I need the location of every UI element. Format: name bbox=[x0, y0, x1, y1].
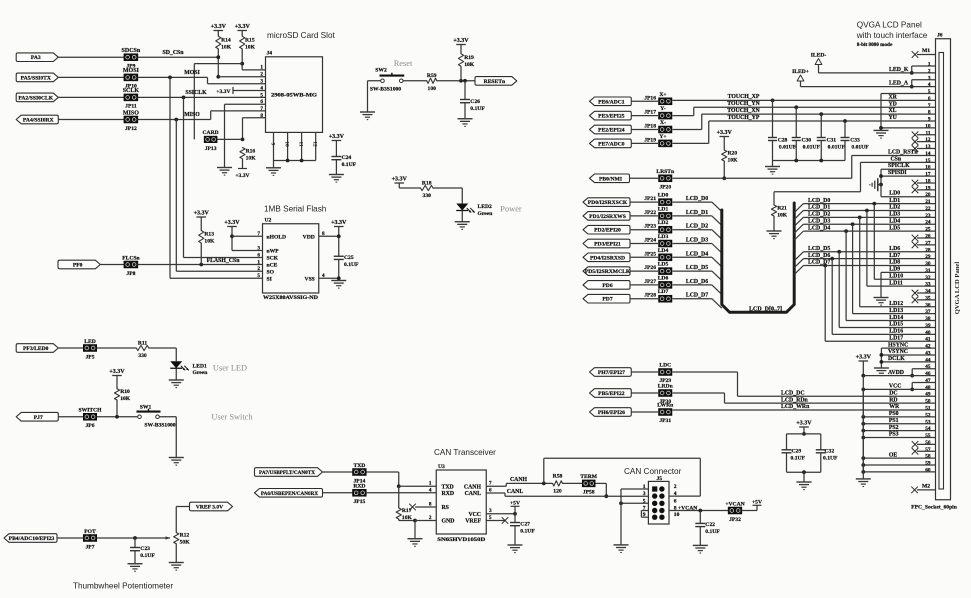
svg-text:LCD_RDn: LCD_RDn bbox=[781, 397, 809, 403]
svg-text:JP18: JP18 bbox=[644, 124, 656, 130]
svg-text:WR: WR bbox=[889, 404, 900, 410]
svg-text:TERM: TERM bbox=[580, 474, 598, 480]
svg-text:PH6/EPI26: PH6/EPI26 bbox=[598, 410, 625, 416]
svg-text:TOUCH_YN: TOUCH_YN bbox=[727, 101, 760, 107]
svg-text:LCD_D0: LCD_D0 bbox=[808, 198, 830, 204]
svg-text:PF0: PF0 bbox=[73, 263, 83, 269]
svg-text:C23: C23 bbox=[140, 546, 150, 552]
svg-text:DC: DC bbox=[889, 390, 897, 396]
svg-text:LRSTn: LRSTn bbox=[656, 169, 675, 175]
svg-text:PA4/SSI0RX: PA4/SSI0RX bbox=[23, 118, 54, 124]
svg-text:CANL: CANL bbox=[507, 489, 524, 495]
svg-text:TOUCH_XN: TOUCH_XN bbox=[727, 108, 760, 114]
svg-text:Power: Power bbox=[500, 205, 522, 214]
svg-text:JP11: JP11 bbox=[125, 104, 137, 110]
svg-text:4: 4 bbox=[260, 85, 263, 91]
svg-text:2: 2 bbox=[674, 484, 677, 490]
svg-text:LED: LED bbox=[84, 339, 96, 345]
svg-text:TOUCH_YP: TOUCH_YP bbox=[728, 115, 760, 121]
svg-text:LCD_D7: LCD_D7 bbox=[808, 260, 830, 266]
svg-text:C24: C24 bbox=[342, 155, 352, 161]
svg-text:50K: 50K bbox=[180, 540, 191, 546]
svg-text:SCLK: SCLK bbox=[123, 88, 140, 94]
svg-text:7: 7 bbox=[489, 481, 492, 487]
svg-text:6: 6 bbox=[260, 99, 263, 105]
svg-text:2: 2 bbox=[260, 72, 263, 78]
svg-text:Green: Green bbox=[193, 370, 209, 376]
svg-text:PE6/ADC1: PE6/ADC1 bbox=[598, 99, 625, 105]
svg-text:9: 9 bbox=[270, 143, 276, 146]
svg-text:R19: R19 bbox=[464, 55, 474, 61]
svg-text:LD3: LD3 bbox=[889, 212, 900, 218]
svg-text:LCD_D7: LCD_D7 bbox=[686, 293, 708, 299]
svg-text:J4: J4 bbox=[267, 51, 273, 57]
svg-text:LD3: LD3 bbox=[658, 234, 669, 240]
svg-text:LD16: LD16 bbox=[889, 329, 903, 335]
svg-text:8: 8 bbox=[260, 113, 263, 119]
svg-text:330: 330 bbox=[138, 353, 147, 359]
svg-text:U2: U2 bbox=[265, 218, 272, 224]
svg-text:LRDn: LRDn bbox=[658, 384, 674, 390]
svg-text:PA3: PA3 bbox=[31, 55, 41, 61]
svg-text:LDC: LDC bbox=[659, 363, 671, 369]
svg-text:MISO: MISO bbox=[184, 112, 200, 118]
svg-text:VREF 3.0V: VREF 3.0V bbox=[196, 505, 223, 511]
svg-text:10K: 10K bbox=[464, 62, 475, 68]
svg-text:PD4/I2SRXSD: PD4/I2SRXSD bbox=[590, 255, 625, 261]
svg-text:RESETn: RESETn bbox=[484, 79, 506, 85]
svg-text:LCD_D0: LCD_D0 bbox=[686, 196, 708, 202]
svg-text:LCD_D3: LCD_D3 bbox=[808, 218, 830, 224]
svg-text:3: 3 bbox=[489, 508, 492, 514]
svg-text:LED_K: LED_K bbox=[889, 67, 909, 73]
svg-text:PE3/EPI25: PE3/EPI25 bbox=[598, 114, 625, 120]
svg-text:10K: 10K bbox=[245, 45, 256, 51]
svg-text:microSD Card Slot: microSD Card Slot bbox=[267, 31, 336, 40]
svg-text:R58: R58 bbox=[553, 474, 563, 480]
svg-text:+3.3V: +3.3V bbox=[109, 369, 125, 375]
svg-text:FLASH_CSn: FLASH_CSn bbox=[207, 258, 241, 264]
svg-text:+3.3V: +3.3V bbox=[392, 176, 408, 182]
svg-text:120: 120 bbox=[553, 488, 562, 494]
svg-text:0.01UF: 0.01UF bbox=[779, 144, 797, 150]
svg-text:LD12: LD12 bbox=[889, 301, 903, 307]
svg-text:10K: 10K bbox=[246, 155, 257, 161]
svg-text:0.1UF: 0.1UF bbox=[520, 528, 535, 534]
svg-text:JP19: JP19 bbox=[644, 137, 656, 143]
svg-text:1MB Serial Flash: 1MB Serial Flash bbox=[264, 205, 327, 214]
svg-text:0.1UF: 0.1UF bbox=[342, 162, 357, 168]
svg-text:PE2/EPI24: PE2/EPI24 bbox=[598, 128, 625, 134]
svg-text:LD9: LD9 bbox=[889, 267, 900, 273]
svg-text:JP5: JP5 bbox=[85, 354, 94, 360]
svg-text:W25X80AVSSIG-ND: W25X80AVSSIG-ND bbox=[263, 295, 318, 301]
svg-text:SWITCH: SWITCH bbox=[78, 408, 102, 414]
svg-text:PA7/USBPFLT/CAN0TX: PA7/USBPFLT/CAN0TX bbox=[259, 470, 315, 476]
svg-text:LD0: LD0 bbox=[889, 191, 900, 197]
svg-text:+3.3V: +3.3V bbox=[224, 220, 240, 226]
svg-text:PS2: PS2 bbox=[889, 425, 899, 431]
svg-text:JP6: JP6 bbox=[85, 423, 94, 429]
svg-text:PD5/I2SRXMCLK: PD5/I2SRXMCLK bbox=[585, 269, 631, 275]
svg-text:TXD: TXD bbox=[442, 484, 454, 490]
svg-text:R11: R11 bbox=[138, 341, 148, 347]
svg-text:SW-B3S1000: SW-B3S1000 bbox=[370, 87, 401, 93]
svg-text:DCLK: DCLK bbox=[888, 356, 905, 362]
svg-text:LCD_D2: LCD_D2 bbox=[686, 224, 708, 230]
svg-text:nWP: nWP bbox=[267, 249, 280, 255]
svg-text:LED_A: LED_A bbox=[889, 81, 909, 87]
svg-text:LCD_D6: LCD_D6 bbox=[808, 253, 830, 259]
svg-text:10: 10 bbox=[674, 512, 680, 518]
svg-text:0.1UF: 0.1UF bbox=[705, 529, 720, 535]
svg-text:10K: 10K bbox=[204, 239, 215, 245]
svg-text:LD7: LD7 bbox=[889, 253, 900, 259]
svg-text:JP24: JP24 bbox=[644, 238, 656, 244]
svg-text:LD14: LD14 bbox=[889, 315, 903, 321]
svg-text:10K: 10K bbox=[777, 213, 788, 219]
svg-text:7: 7 bbox=[260, 106, 263, 112]
svg-text:JP13: JP13 bbox=[205, 146, 217, 152]
svg-text:HSYNC: HSYNC bbox=[888, 342, 908, 348]
svg-text:LD7: LD7 bbox=[658, 289, 669, 295]
svg-text:+3.3V: +3.3V bbox=[216, 89, 230, 95]
svg-text:User LED: User LED bbox=[213, 364, 247, 373]
svg-text:JP28: JP28 bbox=[644, 293, 656, 299]
svg-text:LCD_D5: LCD_D5 bbox=[686, 265, 708, 271]
svg-text:C26: C26 bbox=[470, 99, 480, 105]
svg-text:3: 3 bbox=[643, 491, 646, 497]
svg-text:100: 100 bbox=[428, 86, 437, 92]
svg-text:J6: J6 bbox=[937, 33, 943, 39]
svg-text:MISO: MISO bbox=[123, 110, 139, 116]
svg-text:PD0/I2SRXSCK: PD0/I2SRXSCK bbox=[588, 200, 628, 206]
svg-text:SI: SI bbox=[267, 276, 272, 282]
svg-text:SPICLK: SPICLK bbox=[888, 163, 910, 169]
svg-text:PA6/USBEPEN/CAN0RX: PA6/USBEPEN/CAN0RX bbox=[261, 491, 319, 497]
svg-text:1: 1 bbox=[257, 259, 260, 265]
svg-text:RD: RD bbox=[889, 397, 897, 403]
svg-text:LCD_D[0..7]: LCD_D[0..7] bbox=[749, 307, 782, 313]
svg-text:ILED+: ILED+ bbox=[792, 69, 809, 75]
svg-text:JP12: JP12 bbox=[125, 126, 137, 132]
svg-text:+3.3V: +3.3V bbox=[453, 38, 469, 44]
svg-text:Green: Green bbox=[478, 211, 494, 217]
svg-text:5: 5 bbox=[260, 92, 263, 98]
svg-text:LED1: LED1 bbox=[193, 363, 208, 369]
svg-text:JP20: JP20 bbox=[659, 185, 671, 191]
svg-text:MOSI: MOSI bbox=[184, 70, 200, 76]
svg-text:SW2: SW2 bbox=[375, 68, 387, 74]
svg-text:PA2/SSI0CLK: PA2/SSI0CLK bbox=[18, 95, 53, 101]
svg-text:10K: 10K bbox=[728, 158, 739, 164]
svg-text:3: 3 bbox=[260, 79, 263, 85]
svg-text:+3.3V: +3.3V bbox=[235, 173, 249, 179]
svg-text:R12: R12 bbox=[180, 533, 190, 539]
svg-text:PB0/NMI: PB0/NMI bbox=[599, 176, 622, 182]
svg-text:MOSI: MOSI bbox=[123, 68, 140, 74]
svg-text:SPISDI: SPISDI bbox=[888, 170, 907, 176]
svg-text:JP27: JP27 bbox=[644, 279, 656, 285]
svg-text:LCD_D3: LCD_D3 bbox=[686, 238, 708, 244]
svg-text:330: 330 bbox=[423, 193, 432, 199]
svg-text:LD2: LD2 bbox=[889, 205, 900, 211]
svg-text:R21: R21 bbox=[777, 206, 787, 212]
svg-text:0.1UF: 0.1UF bbox=[470, 106, 485, 112]
svg-text:JP32: JP32 bbox=[729, 517, 741, 523]
svg-text:PD3/EPI21: PD3/EPI21 bbox=[594, 242, 621, 248]
svg-text:LD8: LD8 bbox=[889, 260, 900, 266]
svg-text:LD10: LD10 bbox=[889, 273, 903, 279]
svg-text:R14: R14 bbox=[221, 38, 231, 44]
svg-text:PJ7: PJ7 bbox=[34, 415, 43, 421]
svg-text:PB5/EPI22: PB5/EPI22 bbox=[598, 391, 625, 397]
svg-text:LCD_D5: LCD_D5 bbox=[808, 246, 830, 252]
svg-text:SW-B3S1000: SW-B3S1000 bbox=[144, 422, 175, 428]
svg-text:nHOLD: nHOLD bbox=[267, 234, 287, 240]
svg-text:ILED-: ILED- bbox=[811, 53, 827, 59]
svg-text:2908-05WB-MG: 2908-05WB-MG bbox=[271, 92, 317, 98]
svg-text:LD2: LD2 bbox=[658, 220, 669, 226]
svg-text:+3.3V: +3.3V bbox=[796, 420, 812, 426]
svg-text:User Switch: User Switch bbox=[211, 413, 253, 422]
svg-text:+3.3V: +3.3V bbox=[211, 24, 227, 30]
svg-text:LED2: LED2 bbox=[478, 204, 493, 210]
svg-text:QVGA LCD Panel: QVGA LCD Panel bbox=[954, 262, 961, 315]
svg-text:LD11: LD11 bbox=[889, 280, 903, 286]
svg-text:C33: C33 bbox=[850, 137, 860, 143]
svg-text:TXD: TXD bbox=[353, 463, 365, 469]
svg-text:11: 11 bbox=[298, 141, 304, 146]
svg-text:PB4/ADC10/EPI23: PB4/ADC10/EPI23 bbox=[9, 536, 55, 542]
svg-text:SO: SO bbox=[267, 269, 275, 275]
svg-text:YU: YU bbox=[889, 115, 898, 121]
svg-text:LD1: LD1 bbox=[658, 206, 669, 212]
svg-text:10: 10 bbox=[284, 141, 290, 147]
svg-text:R18: R18 bbox=[422, 181, 432, 187]
svg-text:JP8: JP8 bbox=[126, 271, 135, 277]
svg-text:VCC: VCC bbox=[468, 512, 481, 518]
svg-text:VREF: VREF bbox=[465, 519, 481, 525]
svg-text:LD6: LD6 bbox=[658, 275, 669, 281]
svg-text:VSYNC: VSYNC bbox=[888, 349, 908, 355]
svg-text:QVGA LCD Panel: QVGA LCD Panel bbox=[857, 21, 922, 30]
svg-text:LD13: LD13 bbox=[889, 308, 903, 314]
svg-text:PD1/I2SRXWS: PD1/I2SRXWS bbox=[589, 214, 626, 220]
svg-text:8: 8 bbox=[429, 501, 432, 507]
svg-text:LCD_D4: LCD_D4 bbox=[808, 225, 830, 231]
svg-text:X+: X+ bbox=[659, 92, 666, 98]
svg-text:SW1: SW1 bbox=[140, 404, 152, 410]
svg-text:U3: U3 bbox=[438, 464, 445, 470]
svg-text:6: 6 bbox=[674, 498, 677, 504]
svg-text:RXD: RXD bbox=[442, 491, 455, 497]
svg-text:R13: R13 bbox=[204, 232, 214, 238]
svg-text:LCD_D1: LCD_D1 bbox=[686, 210, 708, 216]
svg-text:TOUCH_XP: TOUCH_XP bbox=[728, 94, 760, 100]
svg-text:SDCSn: SDCSn bbox=[122, 48, 141, 54]
svg-text:LCD_WRn: LCD_WRn bbox=[781, 404, 810, 410]
svg-text:PE7/ADC0: PE7/ADC0 bbox=[598, 141, 625, 147]
svg-text:+VCAN: +VCAN bbox=[725, 501, 744, 507]
svg-text:Y+: Y+ bbox=[659, 134, 666, 140]
svg-text:LCD_D1: LCD_D1 bbox=[808, 205, 830, 211]
svg-text:C30: C30 bbox=[801, 137, 811, 143]
svg-text:LD1: LD1 bbox=[889, 198, 900, 204]
svg-text:+3.3V: +3.3V bbox=[331, 220, 347, 226]
svg-text:0.01UF: 0.01UF bbox=[828, 144, 846, 150]
svg-text:LD0: LD0 bbox=[658, 193, 669, 199]
svg-text:C25: C25 bbox=[344, 255, 354, 261]
svg-text:with touch interface: with touch interface bbox=[856, 31, 928, 40]
svg-text:PH7/EPI27: PH7/EPI27 bbox=[598, 370, 625, 376]
svg-text:C32: C32 bbox=[825, 448, 835, 454]
svg-text:AVDD: AVDD bbox=[888, 370, 904, 376]
svg-text:JP58: JP58 bbox=[583, 490, 595, 496]
svg-text:SD_CSn: SD_CSn bbox=[163, 50, 185, 56]
svg-text:0.1UF: 0.1UF bbox=[823, 455, 838, 461]
svg-text:SCK: SCK bbox=[267, 256, 279, 262]
svg-text:J5: J5 bbox=[657, 476, 663, 482]
svg-text:LD15: LD15 bbox=[889, 322, 903, 328]
svg-text:PS3: PS3 bbox=[889, 432, 899, 438]
svg-text:R15: R15 bbox=[245, 38, 255, 44]
svg-text:CANH: CANH bbox=[464, 484, 482, 490]
svg-text:M2: M2 bbox=[922, 483, 930, 489]
svg-text:+3.3V: +3.3V bbox=[856, 354, 872, 360]
svg-text:M1: M1 bbox=[922, 48, 930, 54]
svg-text:R10: R10 bbox=[120, 389, 130, 395]
svg-text:JP31: JP31 bbox=[659, 418, 671, 424]
svg-text:JP26: JP26 bbox=[644, 265, 656, 271]
svg-text:JP22: JP22 bbox=[644, 210, 656, 216]
svg-text:RXD: RXD bbox=[353, 484, 365, 490]
svg-text:JP16: JP16 bbox=[644, 95, 656, 101]
svg-text:LD4: LD4 bbox=[889, 218, 900, 224]
svg-text:2: 2 bbox=[429, 515, 432, 521]
svg-text:1: 1 bbox=[429, 481, 432, 487]
svg-text:+3.3V: +3.3V bbox=[235, 24, 251, 30]
svg-text:LWRn: LWRn bbox=[657, 403, 674, 409]
svg-text:8-bit 8080 mode: 8-bit 8080 mode bbox=[857, 42, 893, 48]
svg-text:1: 1 bbox=[260, 65, 263, 71]
svg-text:VSS: VSS bbox=[305, 276, 315, 282]
svg-text:GND: GND bbox=[442, 519, 455, 525]
svg-text:LCD_D2: LCD_D2 bbox=[808, 212, 830, 218]
svg-text:CARD: CARD bbox=[203, 130, 219, 136]
svg-text:VDD: VDD bbox=[303, 234, 315, 240]
svg-text:CAN Transceiver: CAN Transceiver bbox=[434, 448, 496, 457]
svg-text:12: 12 bbox=[312, 141, 318, 147]
svg-text:PD7: PD7 bbox=[602, 297, 612, 303]
svg-text:0.1UF: 0.1UF bbox=[344, 262, 359, 268]
svg-text:X-: X- bbox=[660, 120, 666, 126]
svg-text:PD2/EPI20: PD2/EPI20 bbox=[594, 228, 621, 234]
svg-text:4: 4 bbox=[429, 487, 432, 493]
svg-text:10K: 10K bbox=[221, 45, 232, 51]
svg-text:Thumbwheel Potentiometer: Thumbwheel Potentiometer bbox=[73, 582, 173, 591]
svg-text:PF3/LED0: PF3/LED0 bbox=[23, 346, 49, 352]
svg-text:C22: C22 bbox=[705, 522, 715, 528]
svg-text:JP15: JP15 bbox=[353, 499, 365, 505]
svg-text:C28: C28 bbox=[778, 137, 788, 143]
svg-text:PD6: PD6 bbox=[602, 283, 612, 289]
svg-text:PS0: PS0 bbox=[889, 411, 899, 417]
svg-text:PS1: PS1 bbox=[889, 418, 899, 424]
svg-text:C31: C31 bbox=[826, 137, 836, 143]
svg-text:LCD_RSTn: LCD_RSTn bbox=[888, 149, 918, 155]
svg-text:RS: RS bbox=[442, 505, 449, 511]
svg-text:CANL: CANL bbox=[465, 491, 482, 497]
svg-text:YD: YD bbox=[889, 101, 897, 107]
svg-text:nCE: nCE bbox=[267, 263, 278, 269]
svg-text:JP23: JP23 bbox=[644, 224, 656, 230]
svg-text:Y-: Y- bbox=[660, 106, 666, 112]
svg-text:0.1UF: 0.1UF bbox=[791, 455, 806, 461]
svg-text:FPC_Socket_60pin: FPC_Socket_60pin bbox=[911, 505, 958, 511]
svg-text:R16: R16 bbox=[246, 148, 256, 154]
svg-text:XL: XL bbox=[889, 108, 897, 114]
svg-text:LD5: LD5 bbox=[658, 262, 669, 268]
svg-text:LD6: LD6 bbox=[889, 246, 900, 252]
svg-text:CANH: CANH bbox=[510, 477, 528, 483]
svg-text:JP21: JP21 bbox=[644, 196, 656, 202]
svg-text:LCD_DC: LCD_DC bbox=[781, 390, 805, 396]
svg-text:LCD_D6: LCD_D6 bbox=[686, 279, 708, 285]
svg-text:VCC: VCC bbox=[889, 384, 902, 390]
svg-text:LD17: LD17 bbox=[889, 335, 903, 341]
svg-text:OE: OE bbox=[889, 452, 898, 458]
svg-text:0.01UF: 0.01UF bbox=[803, 144, 821, 150]
svg-text:Reset: Reset bbox=[394, 59, 413, 68]
svg-text:+3.3V: +3.3V bbox=[194, 210, 210, 216]
svg-text:0.01UF: 0.01UF bbox=[851, 144, 869, 150]
svg-text:FLCSn: FLCSn bbox=[122, 255, 140, 261]
svg-text:JP7: JP7 bbox=[85, 544, 94, 550]
svg-text:SSICLK: SSICLK bbox=[185, 90, 207, 96]
svg-text:LCD_D4: LCD_D4 bbox=[686, 251, 708, 257]
svg-text:SN65HVD1050D: SN65HVD1050D bbox=[437, 537, 485, 543]
svg-text:LD5: LD5 bbox=[889, 225, 900, 231]
svg-text:JP25: JP25 bbox=[644, 251, 656, 257]
svg-text:C29: C29 bbox=[792, 448, 802, 454]
svg-text:+3.3V: +3.3V bbox=[717, 130, 733, 136]
svg-text:C27: C27 bbox=[520, 521, 530, 527]
svg-text:XR: XR bbox=[889, 94, 898, 100]
svg-text:PA5/SSI0TX: PA5/SSI0TX bbox=[21, 75, 51, 81]
svg-text:CSn: CSn bbox=[891, 156, 902, 162]
svg-text:R20: R20 bbox=[728, 151, 738, 157]
svg-text:+3.3V: +3.3V bbox=[329, 134, 345, 140]
svg-text:0.1UF: 0.1UF bbox=[140, 553, 155, 559]
svg-text:CAN Connector: CAN Connector bbox=[624, 467, 682, 476]
svg-text:POT: POT bbox=[84, 529, 96, 535]
svg-text:10K: 10K bbox=[120, 396, 131, 402]
svg-text:R59: R59 bbox=[427, 73, 437, 79]
svg-text:JP17: JP17 bbox=[644, 110, 656, 116]
svg-text:LD4: LD4 bbox=[658, 248, 669, 254]
